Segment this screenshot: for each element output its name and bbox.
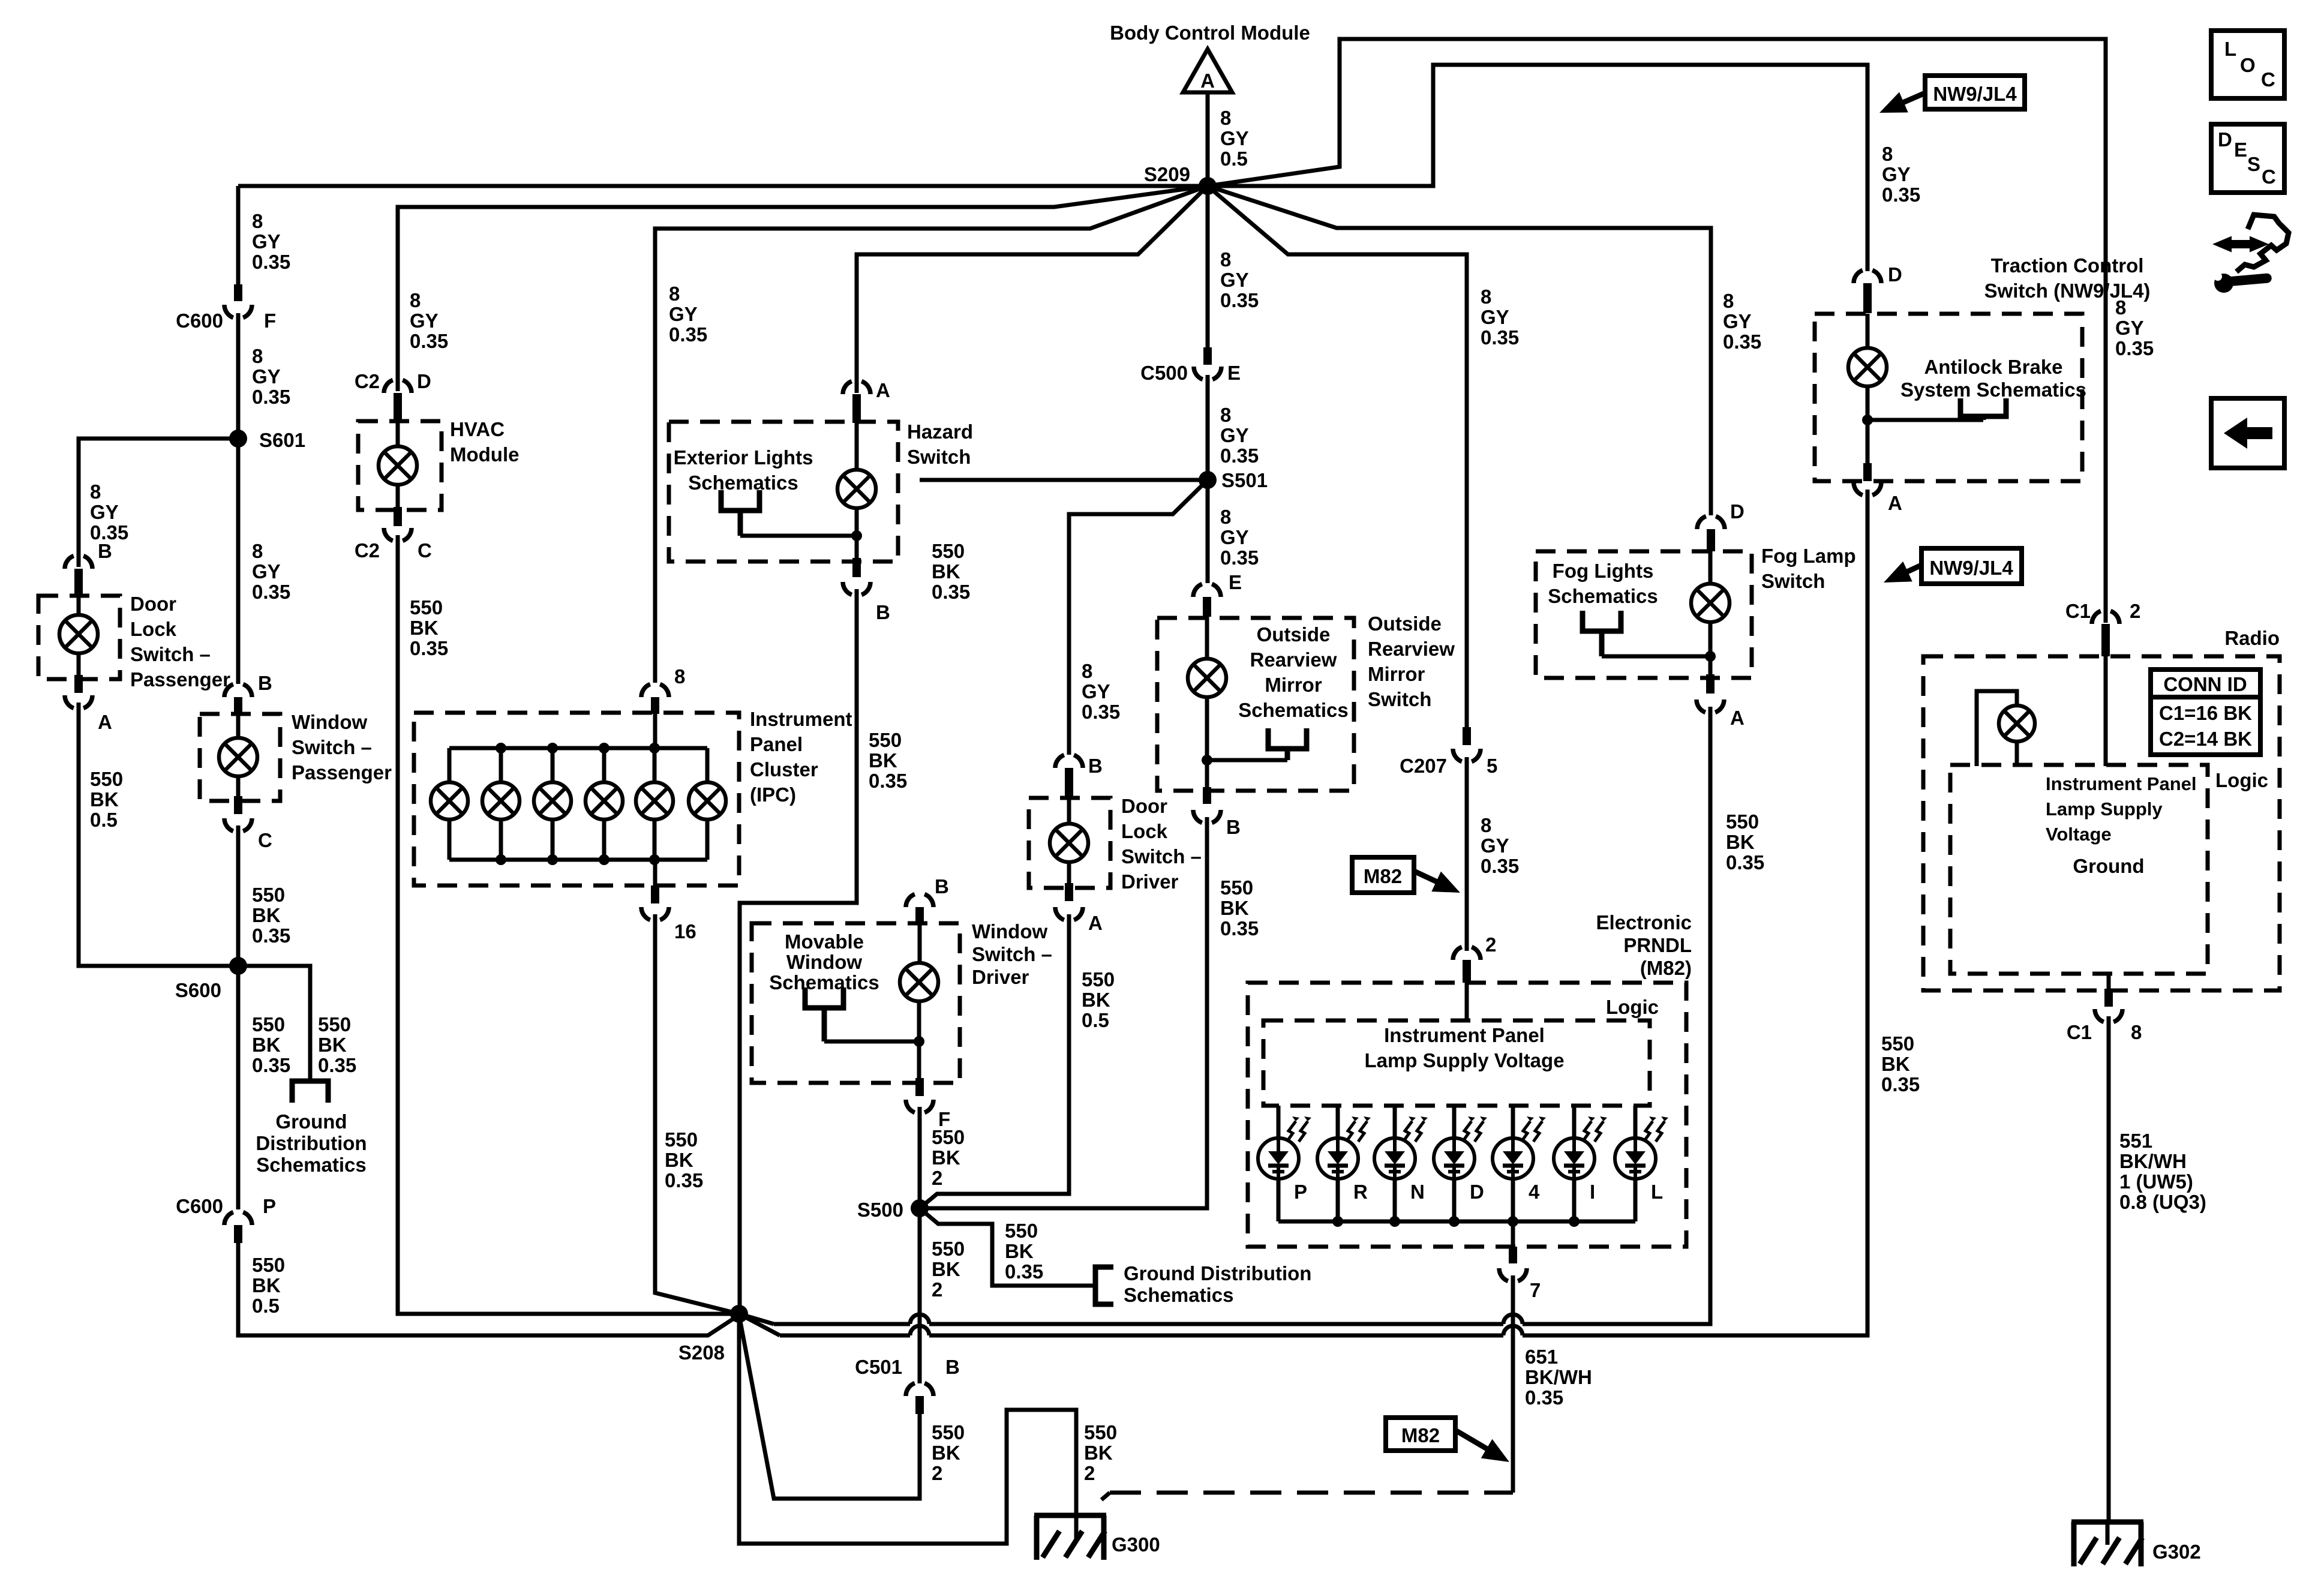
junction node hazard [851,530,862,541]
wire diagonal S209 to IPC feed [655,186,1208,683]
wire C207 to PRNDL pin 2 8 GY 0.35 [1465,757,1469,951]
lamp IPC backlight 2 [499,748,503,783]
wire S600 branch to ground distribution reference [238,966,310,1081]
junction node IPC bottom bus [496,854,506,865]
svg-text:7: 7 [1530,1279,1541,1301]
wire S600 down to C600 P [236,966,241,1209]
splice S500 [911,1199,929,1217]
wire bus right from S209 toward traction control [1208,65,1867,271]
svg-text:P: P [263,1195,276,1217]
wire lower bus right of S208 (to traction) [739,1314,780,1335]
lamp IPC backlight 4 [602,748,606,783]
callout arrow M82 to wire [1414,871,1443,885]
reference bracket antilock brake schematics [1960,398,2006,416]
box Fog Lamp Switch [1536,551,1752,678]
connector C (window switch passenger) [234,796,242,814]
svg-text:C600: C600 [176,1195,223,1217]
LED indicator 4 (PRNDL) [1511,1106,1515,1138]
wire upper bus right of S208 (to fog lamp) [739,1314,774,1324]
wire C600 P to S208 550 BK 0.5 [238,1243,739,1335]
wire bus left from S209 at y310 to C600 branch [238,184,1208,188]
connector B (hazard switch) [852,558,861,577]
junction node IPC top bus [599,743,609,754]
svg-text:C: C [2261,68,2275,91]
ground G302 [2071,1520,2143,1525]
connector A (door lock switch passenger) [74,675,83,693]
reference bracket mirror schematics [1268,728,1307,749]
svg-text:5: 5 [1487,755,1497,777]
wire door lock driver A to S500 550 BK 0.5 [920,914,1069,1208]
connector A (door lock switch driver) [1065,883,1073,901]
box Electronic PRNDL outer [1248,983,1686,1247]
svg-text:B: B [1226,816,1241,838]
wire HVAC C to S208 550 BK 0.35 [398,535,731,1314]
wire window driver F to S500 550 BK 2 [918,1107,922,1208]
svg-text:4: 4 [1529,1181,1540,1203]
wire S500 branch to ground distribution reference [920,1208,1095,1286]
callout arrow NW9/JL4 top [1896,93,1925,106]
svg-text:Body Control Module: Body Control Module [1110,22,1310,44]
svg-text:C2: C2 [355,539,380,562]
connector C500 E [1203,347,1212,365]
wire hop lower bus over S500 wire [910,1326,929,1335]
svg-text:N: N [1410,1181,1425,1203]
svg-text:C: C [2262,166,2276,188]
box HVAC Module [358,421,442,510]
reference bracket fog lights schematics [1583,611,1621,631]
wire S208 to G300 550 BK 2 [739,1314,1076,1544]
splice S600 [229,957,247,975]
svg-text:CONN ID: CONN ID [2163,673,2247,695]
junction node PRNDL bus [1332,1216,1343,1227]
wire 551 BK/WH to G302 [2107,1016,2111,1522]
wire hop upper bus over 651 wire [1503,1314,1523,1324]
splice S501 [1199,471,1217,489]
callout box M82 (bottom) [1386,1418,1455,1451]
wire IPC internal bottom bus [449,858,707,862]
LED indicator R (PRNDL) [1336,1106,1340,1138]
connector 16 (IPC) [653,860,657,887]
splice S208 [730,1305,748,1323]
box Window Switch - Driver (movable window) [752,923,960,1083]
svg-text:I: I [1590,1181,1595,1203]
junction node PRNDL bus [1569,1216,1580,1227]
svg-text:B: B [876,601,890,623]
svg-text:C2: C2 [355,370,380,392]
junction node fog lamp [1705,651,1716,662]
svg-text:Ground: Ground [2073,855,2144,877]
svg-text:S: S [2247,153,2260,175]
lamp IPC backlight 3 [551,748,555,783]
connector A (traction control switch) [1863,463,1872,481]
svg-text:8: 8 [2131,1021,2142,1043]
svg-text:G300: G300 [1112,1533,1160,1556]
svg-text:D: D [2218,128,2232,151]
svg-text:S500: S500 [857,1199,903,1221]
icon LOC box [2211,31,2284,98]
box radio inner Instrument Panel Lamp Supply Voltage [1950,765,2208,974]
wire IPC 16 down to S208 550 BK 0.35 [655,914,739,1314]
wire PRNDL LED common bus [1278,1220,1635,1224]
junction node IPC bottom bus [599,854,609,865]
lamp IPC backlight 6 [705,748,710,783]
junction node IPC top bus [496,743,506,754]
reference bracket ground distribution (left) [292,1081,328,1103]
wire traction A down to lower bus 550 BK 0.35 [1523,490,1867,1335]
wire C501 to S208 550 BK 2 [739,1315,920,1499]
svg-text:S601: S601 [259,429,305,451]
connector C1 8 (radio ground) [2107,974,2111,991]
connector 7 (Electronic PRNDL) [1511,1221,1515,1248]
svg-text:D: D [1470,1181,1484,1203]
lamp outside rearview mirror illumination [1205,617,1209,659]
wire hazard B down to S208 550 BK 0.35 [739,589,857,1314]
box Door Lock Switch - Driver [1029,798,1110,888]
dashed module boundary line (M82) [1101,1493,1110,1500]
wire lamp to junction (mirror) [1205,697,1209,789]
wire 651 BK/WH 0.35 from PRNDL 7 down [1511,1275,1515,1493]
svg-text:16: 16 [674,920,696,942]
connector C600 F [234,284,242,301]
wire diagonal S209 to HVAC feed [398,186,1208,391]
svg-text:C207: C207 [1400,755,1447,777]
callout arrow M82 to 651 wire [1455,1430,1493,1452]
svg-text:A: A [1200,70,1215,92]
wire diagonal S209 to fog lamp feed [1208,186,1711,515]
svg-text:2: 2 [2130,600,2140,622]
ground G300 [1034,1513,1106,1518]
svg-text:Logic: Logic [1606,996,1659,1018]
wire S500 down to C501 550 BK 2 [918,1208,922,1383]
svg-text:G302: G302 [2152,1541,2201,1563]
svg-text:C2=14 BK: C2=14 BK [2159,728,2252,750]
lamp window switch driver illumination [918,923,922,963]
svg-text:Radio: Radio [2224,627,2280,649]
svg-text:C600: C600 [176,310,223,332]
box Instrument Panel Cluster (IPC) [414,713,739,885]
lamp door lock switch driver [1067,798,1071,824]
svg-text:B: B [935,875,949,897]
svg-text:M82: M82 [1364,865,1402,887]
lamp fog lamp switch illumination [1709,551,1713,584]
junction node PRNDL bus [1389,1216,1400,1227]
lamp HVAC module illumination [396,421,400,446]
lamp IPC backlight 5 [653,748,657,783]
wire fog lamp to junction [1709,622,1713,676]
svg-text:C500: C500 [1140,362,1188,384]
terminal triangle A (Body Control Module) [1183,49,1232,92]
svg-text:B: B [258,672,272,694]
wire S501 down to mirror switch E [1206,480,1210,583]
box Window Switch - Passenger [200,714,280,801]
svg-text:D: D [417,370,431,392]
svg-text:E: E [1227,362,1241,384]
wire S601 to door lock passenger [79,439,238,567]
svg-text:L: L [2224,38,2236,60]
LED indicator D (PRNDL) [1452,1106,1457,1138]
reference bracket movable window schematics [805,987,843,1008]
LED indicator P (PRNDL) [1277,1106,1281,1138]
svg-text:C1: C1 [2067,1021,2092,1043]
lamp traction control switch illumination [1866,314,1870,348]
svg-text:S208: S208 [678,1341,725,1364]
svg-text:A: A [1888,492,1902,514]
svg-text:A: A [1088,912,1103,934]
svg-text:M82: M82 [1401,1424,1440,1446]
callout box M82 (middle) [1352,857,1414,893]
callout box NW9/JL4 (top) [1925,76,2025,109]
junction node IPC bottom bus [649,854,660,865]
box Instrument Panel Lamp Supply Voltage (PRNDL logic) [1263,1020,1650,1106]
box Traction Control Switch [1815,314,2082,481]
box Exterior Lights / hazard switch [669,422,898,562]
wire S501 left to window switch driver branch [920,478,1208,482]
connector A (fog lamp switch) [1706,674,1715,694]
junction node IPC bottom bus [547,854,558,865]
splice S209 [1199,177,1217,195]
wire diagonal S209 to hazard switch feed [857,186,1208,393]
lamp door lock switch passenger [77,596,81,615]
svg-text:D: D [1730,500,1744,523]
reference bracket ground distribution (S500) [1095,1267,1113,1304]
svg-text:C: C [418,539,432,562]
connector B (outside rearview mirror switch) [1203,787,1211,804]
svg-text:A: A [1730,707,1744,729]
svg-text:C1: C1 [2065,600,2091,622]
lamp IPC backlight 1 [448,748,452,783]
svg-text:O: O [2240,54,2256,76]
wire IPC internal top bus [449,746,707,751]
wire radio pin2 into logic [2104,656,2108,766]
svg-text:F: F [264,310,276,332]
callout arrow NW9/JL4 middle [1900,565,1921,575]
wire window driver lamp to junction [917,1001,921,1080]
wire hop upper bus over S500 wire [910,1314,929,1324]
wire hop lower bus over 651 wire [1503,1326,1523,1335]
svg-text:C501: C501 [855,1356,902,1378]
reference bracket exterior lights schematics [721,490,759,511]
svg-text:E: E [2234,139,2247,161]
svg-text:E: E [1229,571,1242,593]
svg-text:S600: S600 [175,979,221,1001]
junction node traction [1862,415,1873,425]
connector F (window switch driver) [915,1078,924,1096]
box Door Lock Switch - Passenger [38,596,120,679]
svg-text:D: D [1888,263,1902,286]
svg-text:L: L [1651,1181,1663,1203]
svg-text:C1=16 BK: C1=16 BK [2159,702,2252,724]
svg-text:Antilock BrakeSystem Schematic: Antilock BrakeSystem Schematics [1900,356,2086,401]
junction node IPC top bus [649,743,660,754]
wire C500 to S501 8 GY 0.35 [1206,375,1210,478]
svg-text:P: P [1294,1181,1307,1203]
wire traction lamp to junction [1866,386,1870,464]
svg-text:S501: S501 [1221,469,1268,491]
wire diagonal S209 to radio feed [1208,39,2106,623]
svg-text:A: A [98,711,112,733]
wire pin2 into PRNDL logic [1465,983,1469,1022]
svg-text:C: C [258,829,272,851]
callout box NW9/JL4 (middle) [1921,548,2022,584]
icon DESC box [2211,124,2284,193]
wire IPC pin8 internal [653,713,657,748]
svg-text:B: B [98,540,112,562]
box Outside Rearview Mirror Switch [1157,618,1354,791]
lamp window switch passenger [236,714,241,738]
svg-text:2: 2 [1485,933,1496,956]
icon wrench with arrows [2236,215,2289,272]
wire fog A down to lower bus 550 BK 0.35 [1523,707,1710,1324]
lamp hazard switch illumination [855,422,859,470]
box CONN ID table [2151,670,2260,755]
wire hazard lamp to junction [855,508,859,559]
wire diagonal S209 to C207 feed [1208,186,1467,728]
LED indicator L (PRNDL) [1634,1106,1638,1138]
wire S209 down to C500 [1206,186,1210,349]
svg-text:A: A [876,379,890,401]
wire mirror B down to S500 550 BK 0.35 [920,817,1207,1208]
svg-text:NW9/JL4: NW9/JL4 [1933,83,2017,105]
junction node PRNDL bus [1449,1216,1460,1227]
wire door lock passenger A to S600 550 BK 0.5 [79,703,238,966]
wire BCM stem 8 GY 0.5 [1206,92,1210,185]
svg-text:8: 8 [674,665,685,688]
wire C600 F to S601 8 GY 0.35 [236,313,241,439]
svg-text:B: B [1088,755,1103,777]
junction node PRNDL bus [1508,1216,1518,1227]
junction node IPC top bus [547,743,558,754]
splice S601 [229,430,247,448]
junction node mirror [1202,755,1212,766]
svg-text:S209: S209 [1144,163,1190,185]
connector C2 C (HVAC) [394,507,402,526]
svg-text:Logic: Logic [2215,769,2268,791]
wire S601 down to window switch passenger [236,439,241,684]
lamp radio illumination with loop [1977,691,2017,766]
svg-text:B: B [945,1356,960,1378]
wire bus corner down to C600 F [236,186,241,287]
connector C207 5 [1463,727,1471,745]
icon back arrow box [2211,398,2284,468]
svg-text:R: R [1353,1181,1368,1203]
LED indicator I (PRNDL) [1572,1106,1577,1138]
svg-text:NW9/JL4: NW9/JL4 [1929,557,2013,579]
LED indicator N (PRNDL) [1393,1106,1397,1138]
wire S501 diagonal to door lock switch driver branch [1069,480,1208,755]
wire window passenger C to S600 550 BK 0.35 [236,825,241,966]
junction node window driver [914,1036,924,1047]
